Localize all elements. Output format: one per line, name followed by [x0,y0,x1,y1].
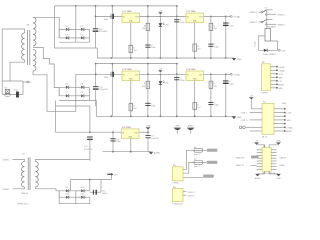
wire [97,57,234,59]
supply +9V [107,173,118,180]
svg-text:IC3 7809: IC3 7809 [123,69,133,71]
svg-text:LED: LED [165,25,169,27]
node X1-1 [27,81,29,83]
wire [225,16,227,58]
wire [147,6,149,17]
svg-text:CAN L: CAN L [280,164,287,167]
wire [111,6,113,17]
net label +12V [278,49,280,51]
wire [257,157,262,159]
wire [203,149,207,151]
transformer T2 secondary [35,162,38,188]
wire [59,86,76,88]
supply GND2 [187,125,195,134]
wire [75,29,77,38]
wire [183,191,186,193]
wire [95,31,97,48]
voltage regulator IC1 [122,11,140,23]
wire [271,157,276,159]
wire [2,29,24,81]
wire [225,74,227,116]
svg-text:CONN1: CONN1 [2,160,10,162]
svg-text:10u/16V: 10u/16V [151,138,159,140]
wire [96,48,98,58]
svg-text:100n: 100n [214,46,218,48]
wire [274,123,284,125]
wire [59,190,76,192]
svg-text:IC2 7805: IC2 7805 [187,11,197,13]
LED LED [159,23,169,27]
wire [13,187,25,189]
resistor R [209,23,218,30]
svg-text:CTRL 1: CTRL 1 [241,113,249,115]
wire [250,130,262,132]
svg-text:470u/35V: 470u/35V [99,89,108,91]
wire [10,60,25,81]
relay K1 coil [265,27,277,42]
capacitor C [145,45,155,49]
svg-text:+5V(A): +5V(A) [278,66,285,69]
diode D9 [65,187,69,192]
wire [59,41,89,43]
wire [95,64,97,87]
svg-text:AGND: AGND [188,125,194,128]
wire [140,15,226,17]
wire [271,168,276,170]
capacitor C [174,20,184,24]
wire [271,73,277,75]
wire [147,132,149,135]
svg-text:GND: GND [282,103,287,105]
wire [58,191,60,197]
svg-text:+5V(B): +5V(B) [233,74,240,76]
supply GND top-right of X5 [276,141,281,145]
wire [271,41,278,50]
wire [274,115,284,117]
supply +5VA [146,124,152,132]
supply GND1 [174,126,182,134]
svg-text:100n: 100n [214,105,218,107]
wire [246,126,262,128]
wire [257,145,265,148]
wire [76,37,90,39]
wire [274,130,284,132]
svg-text:GND: GND [278,88,283,90]
wire [2,80,23,82]
wire [159,74,161,116]
varistor R17 [15,90,20,98]
wire [58,87,60,96]
wire [130,81,132,117]
wire [271,166,276,168]
connector X4 [172,187,183,205]
top bus row 1 [54,5,176,7]
wire [95,100,97,116]
fuse F3 [194,159,203,168]
wire [250,119,262,121]
resistor R [142,23,150,30]
wire [13,160,25,162]
wire [75,38,77,42]
wire [33,71,76,111]
voltage regulator IC5 [122,127,140,139]
wire [176,16,178,58]
resistor R [209,81,218,88]
wire [140,131,150,133]
svg-text:CONN7: CONN7 [261,93,269,95]
wire [59,95,76,97]
wire [76,28,90,30]
transformer T2 primary [21,162,24,188]
wire [111,16,113,58]
capacitor C [223,23,234,27]
net label SWCOM [203,175,214,178]
wire [274,119,284,121]
capacitor C4 [145,136,159,140]
svg-text:CTRL 2: CTRL 2 [241,120,249,122]
wire [54,47,97,49]
transformer T1 primary [22,33,25,60]
wire [75,191,77,197]
diode D3 [65,34,69,39]
svg-text:100n: 100n [180,80,184,82]
svg-text:GND: GND [278,77,283,79]
svg-text:1000u: 1000u [102,193,108,195]
supply +5V [249,95,254,99]
svg-text:+12V: +12V [281,50,286,52]
wire [130,23,132,58]
wire [210,74,212,116]
svg-text:K1 G5V2: K1 G5V2 [268,27,277,29]
node [239,126,242,129]
capacitor [87,137,93,139]
wire [274,126,284,128]
wire [271,160,276,162]
wire [271,87,277,89]
svg-text:AGND: AGND [286,130,292,133]
wire [22,81,24,95]
wire [271,149,276,151]
connector X5 [262,146,276,175]
wire [183,176,203,178]
supply +5V top-left of X5 [254,141,259,145]
switch S1 [259,8,277,16]
resistor R [129,104,138,111]
wire [251,164,257,166]
transformer T1 core [27,30,29,65]
wire [89,139,91,159]
wire [203,161,207,163]
net label SWNO1 [207,149,218,152]
svg-text:CAN0 RX: CAN0 RX [236,156,245,159]
wire [59,37,76,39]
svg-text:100u: 100u [229,83,233,85]
connector X3 [172,165,183,184]
capacitor C2 [104,72,114,79]
svg-text:+5V(B): +5V(B) [286,127,293,129]
svg-text:SWNC2: SWNC2 [278,24,286,26]
resistor R [142,81,150,88]
svg-text:TRHEI 202-1: TRHEI 202-1 [17,204,30,206]
svg-text:GND: GND [175,126,180,128]
svg-text:AGND: AGND [278,83,284,86]
wire [257,149,262,151]
wire [59,99,96,101]
svg-text:GND: GND [286,120,291,122]
wire [111,64,113,75]
svg-text:SWNC1: SWNC1 [278,15,286,17]
capacitor C [223,81,234,85]
svg-text:SWNO2: SWNO2 [187,195,195,197]
wire [274,108,284,110]
resistor R [129,45,138,52]
wire [2,94,23,96]
diode D5 [65,84,69,89]
wire [271,163,276,165]
svg-text:GND: GND [276,141,281,143]
wire [71,179,112,181]
wire [56,131,140,133]
wire [76,95,90,97]
diode D1 [65,26,69,31]
svg-text:IC5 7805: IC5 7805 [122,127,132,129]
fuse F1 [5,88,11,97]
svg-text:ML10: ML10 [262,137,268,139]
svg-text:100n: 100n [104,19,108,21]
voltage regulator IC3 [122,69,140,81]
wire [226,73,231,75]
wire [147,138,149,152]
wire [89,106,91,132]
resistor R [193,102,202,109]
top bus row 2 [96,63,177,65]
supply +5V [158,10,163,14]
wire [176,6,178,17]
wire [183,194,186,196]
svg-text:100n: 100n [104,77,108,79]
wire [89,29,91,42]
svg-text:GND: GND [237,117,242,119]
capacitor C13 [93,190,107,196]
wire [89,180,91,191]
svg-text:+5V(A): +5V(A) [233,16,240,19]
wire [58,197,60,204]
capacitor C [174,78,184,82]
svg-text:470u/35V: 470u/35V [84,149,93,151]
wire [89,87,91,100]
svg-text:GND: GND [276,178,281,180]
diode D4 [80,34,84,39]
wire [56,105,90,107]
wire [259,36,265,50]
wire [269,145,278,148]
wire [257,152,262,154]
LED LED [159,81,169,85]
diode D6 [80,84,84,89]
wire [23,81,27,83]
svg-text:+5V(B): +5V(B) [278,70,285,72]
capacitor C1 [104,14,114,21]
wire [58,17,60,38]
wire [55,100,57,132]
wire [59,203,90,205]
wire [100,180,102,193]
connector X2 [262,102,274,139]
wire [194,81,196,117]
svg-text:100n: 100n [180,22,184,24]
wire [1,81,3,95]
diode D8 [80,92,84,97]
wire [250,112,262,114]
svg-text:CONN: CONN [172,183,178,185]
wire [53,6,55,17]
net label SWNO2 [207,161,218,164]
wire [183,162,194,173]
wire [257,160,262,162]
wire [267,49,277,51]
connector X1 [261,62,271,95]
capacitor C [208,102,218,106]
svg-text:MAL02: MAL02 [22,192,29,195]
transformer T1 secondary 2 [33,50,36,72]
wire [176,64,178,75]
svg-text:100u: 100u [229,25,233,27]
svg-text:+5V: +5V [159,68,163,70]
wire [266,10,268,29]
wire [103,151,152,153]
wire [147,74,149,116]
wire [58,29,60,38]
svg-text:IC1 7809: IC1 7809 [123,11,133,13]
svg-text:CONN_ALT: CONN_ALT [172,202,183,205]
net label +5V(A) [230,16,232,18]
svg-text:100n: 100n [151,47,155,49]
svg-text:CONN2: CONN2 [2,189,10,191]
wire [75,74,77,87]
ground GND [232,58,242,61]
wire [76,196,90,198]
capacitor C11 [93,87,108,91]
wire [271,152,276,154]
wire [96,115,234,117]
wire [257,154,262,156]
wire [35,187,59,191]
wire [140,73,226,75]
wire [75,6,77,30]
wire [95,89,97,106]
wire [75,87,77,96]
wire [147,64,149,75]
svg-text:+5V: +5V [159,10,163,12]
svg-text:IC4 7805: IC4 7805 [187,69,197,71]
wire [274,112,284,114]
wire [271,69,277,71]
svg-text:CAN0 TX: CAN0 TX [236,164,245,167]
svg-text:AGND: AGND [154,152,161,155]
wire [257,166,262,168]
wire [194,23,196,58]
wire [59,28,76,30]
svg-text:100n: 100n [116,141,120,143]
wire [147,16,149,58]
svg-text:relay: relay [255,42,257,46]
svg-text:100n: 100n [151,106,155,108]
capacitor C10 [93,29,108,33]
svg-text:AGND: AGND [255,177,261,180]
wire [210,16,212,58]
wire [271,76,277,78]
wire [257,163,262,165]
wire [257,168,262,170]
wire [112,132,114,152]
wire [53,17,55,48]
switch S2 [259,20,277,25]
diode D10 [81,187,86,192]
transformer T2 core [27,158,29,191]
wire [159,16,161,58]
net label +5V(B) [230,73,232,75]
wire [251,156,257,158]
wire [271,154,276,156]
svg-text:470u/35V: 470u/35V [99,31,108,33]
supply +5V [158,68,163,72]
capacitor C [145,103,155,107]
wire [75,197,77,204]
diode D11 [65,194,69,199]
svg-text:CAN H: CAN H [280,156,287,159]
ground GND [232,116,242,119]
capacitor C [208,44,218,48]
wire [90,191,101,193]
svg-text:+3.3V: +3.3V [286,113,292,115]
diode D13 [263,49,277,57]
svg-text:+12V: +12V [278,74,283,76]
wire [76,190,90,192]
wire [89,160,91,161]
wire [271,66,277,68]
wire [130,139,132,152]
wire [35,160,90,162]
wire [251,100,262,109]
svg-text:LED: LED [165,83,169,85]
wire [89,197,91,204]
wire [58,191,60,197]
capacitor C3 [110,139,120,143]
svg-text:GND: GND [237,59,242,61]
ground AGND [149,152,161,155]
diode D7 [65,92,69,97]
wire [226,15,231,17]
fuse F2 [194,147,203,156]
wire [58,87,60,96]
svg-text:+5VA: +5VA [146,124,152,127]
wire [271,83,277,85]
svg-text:SWNO1: SWNO1 [187,192,195,194]
svg-text:Diode 1N4007: Diode 1N4007 [263,54,277,56]
wire [76,73,122,75]
diode D12 [81,194,86,199]
wire [76,86,90,88]
wire [70,180,72,191]
svg-text:Fuse 1: Fuse 1 [194,154,201,156]
diode D2 [80,26,84,31]
voltage regulator IC4 [186,69,204,81]
svg-text:Fuse 1: Fuse 1 [194,166,201,168]
supply GND below X5 right [269,171,281,180]
wire [33,16,59,18]
wire [183,150,194,169]
supply AGND below X5 left [255,171,265,180]
